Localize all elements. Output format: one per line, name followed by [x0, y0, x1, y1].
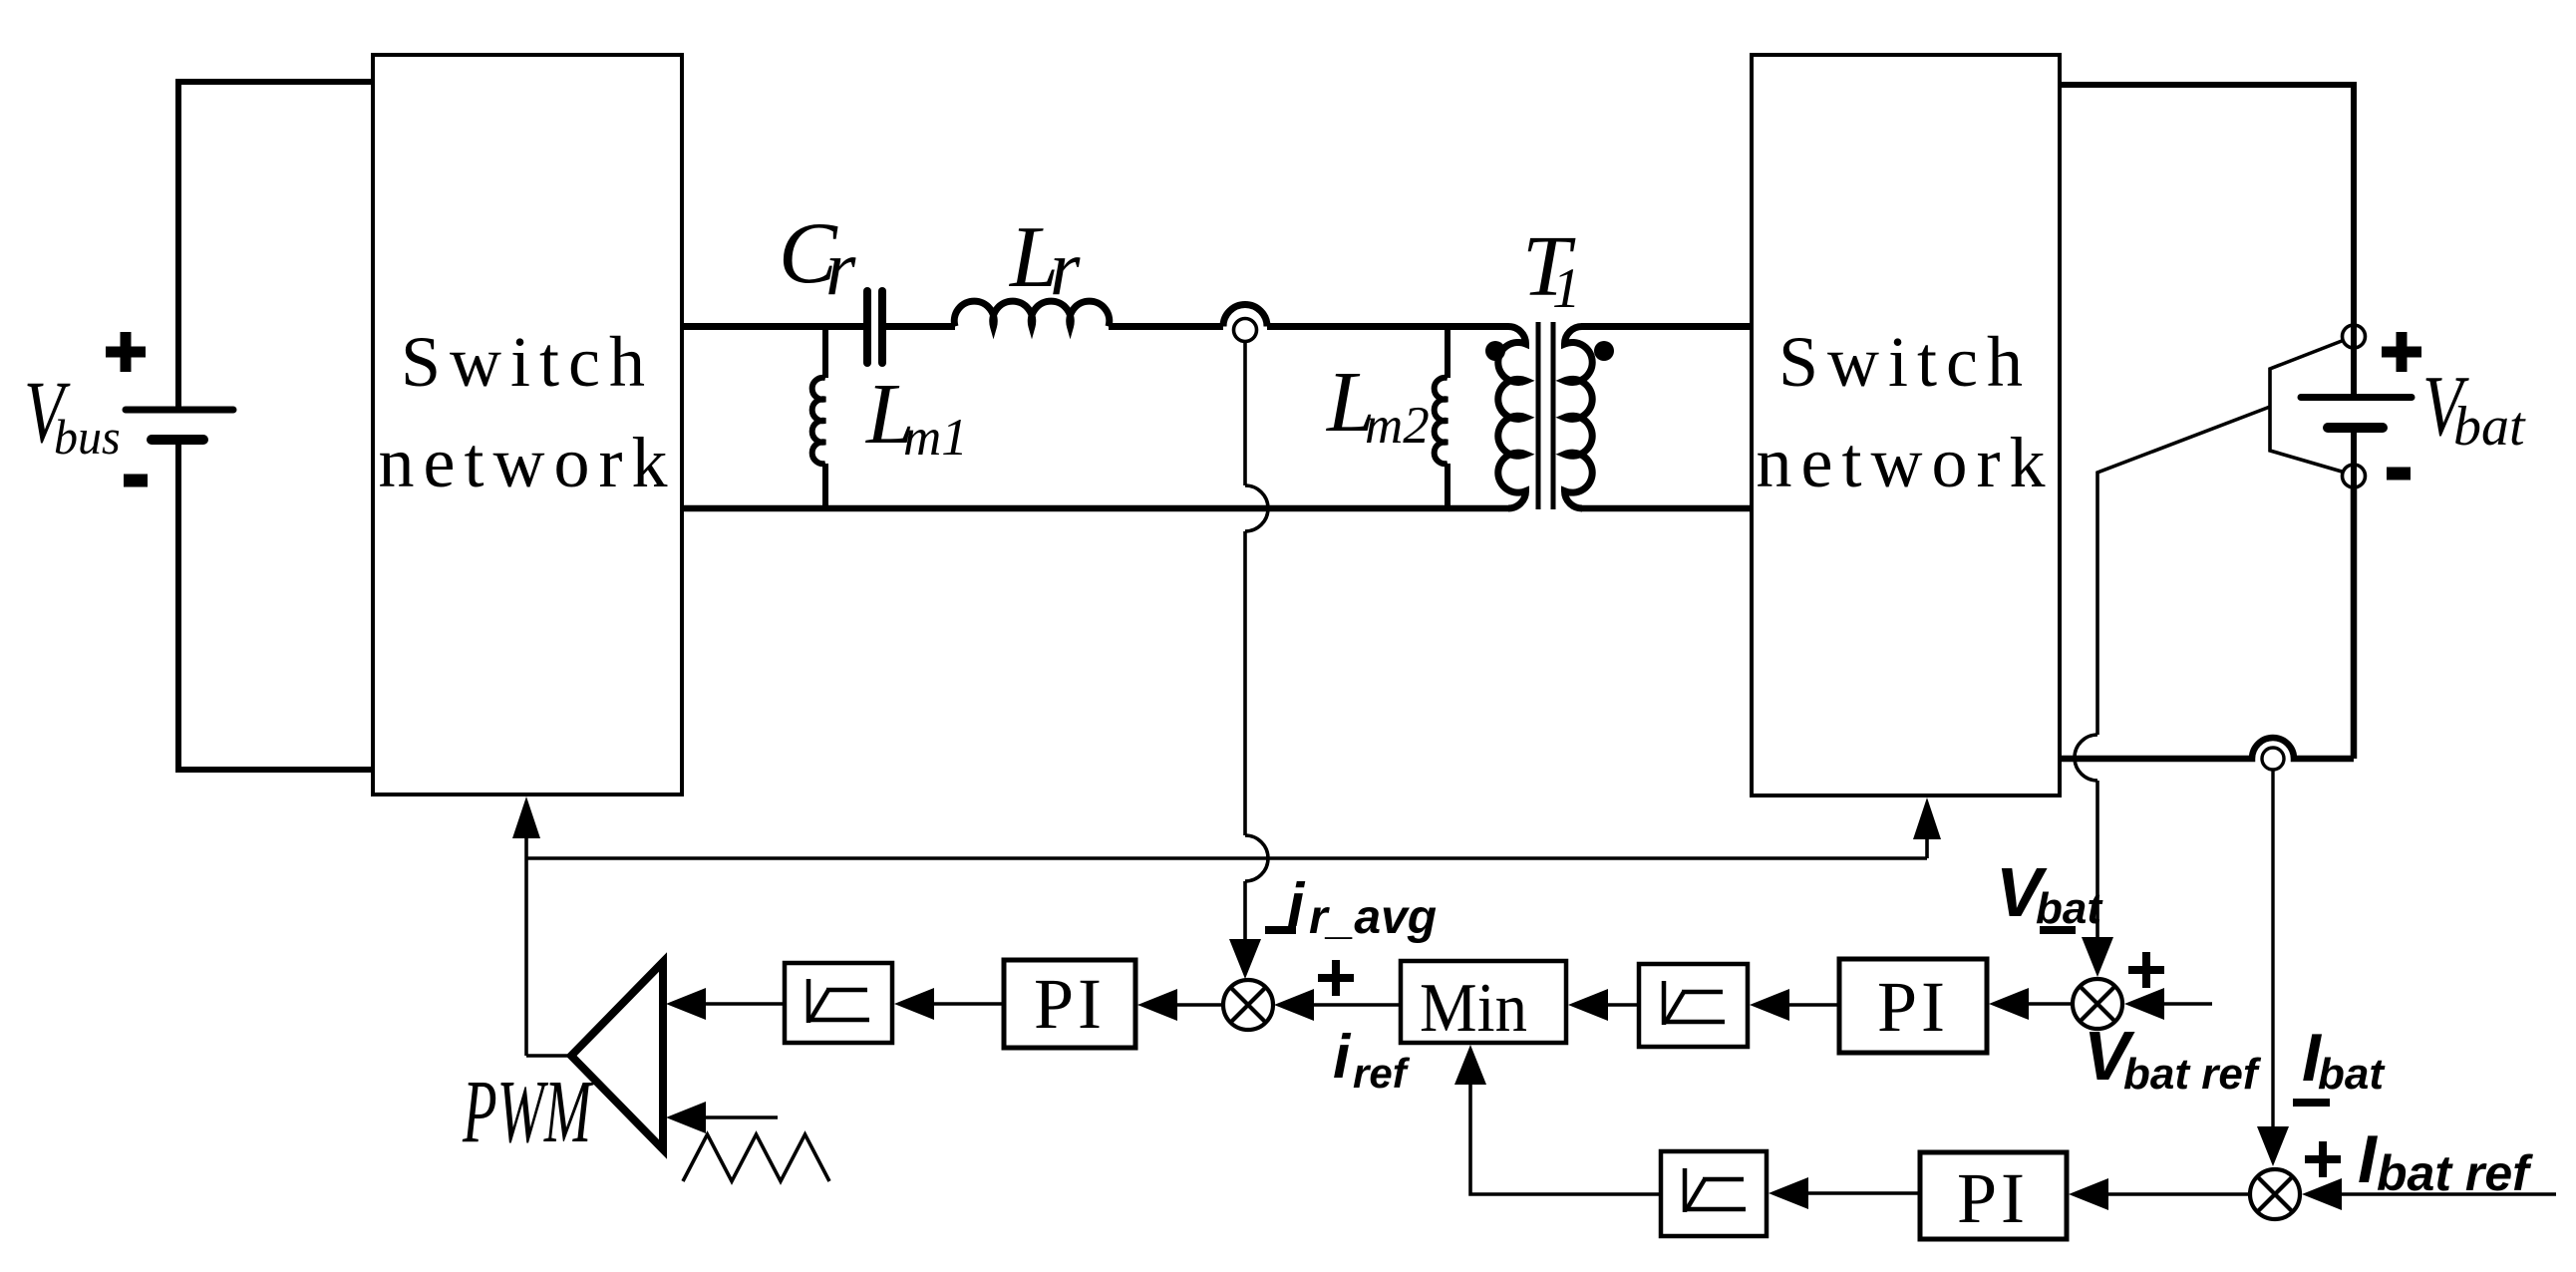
svg-text:network: network	[379, 423, 677, 502]
plus sign at junction 1	[1318, 960, 1354, 996]
transformer T1 core	[1536, 322, 1541, 509]
node: Vbat plus terminal circle	[2343, 325, 2366, 348]
arrow into summing junction 3	[2257, 1126, 2289, 1166]
svg-text:m2: m2	[1365, 397, 1430, 455]
svg-text:ref: ref	[1353, 1050, 1411, 1097]
saturation block 2	[1639, 964, 1748, 1047]
arrow into summing junction 1	[1229, 939, 1261, 979]
inductor Lm2	[1435, 327, 1448, 509]
arrow into Min from right	[1568, 989, 1608, 1021]
transformer T1 primary winding	[1498, 327, 1526, 509]
arrow into Min from below	[1454, 1045, 1486, 1085]
svg-text:m1: m1	[903, 409, 968, 467]
transformer T1 polarity dot primary	[1485, 341, 1505, 361]
svg-text:bat ref: bat ref	[2123, 1050, 2262, 1099]
summing junction 3	[2250, 1169, 2300, 1219]
svg-text:PI: PI	[1877, 967, 1949, 1047]
PI block 2	[1839, 959, 1987, 1053]
svg-text:bat ref: bat ref	[2377, 1145, 2533, 1201]
node: Ibat tap circle	[2262, 748, 2284, 770]
sawtooth carrier input arrow	[666, 1102, 706, 1133]
inductor Lr	[954, 301, 1109, 326]
PI block 1	[1004, 960, 1135, 1048]
svg-text:i: i	[1287, 871, 1306, 940]
node: Vbat minus terminal circle	[2343, 465, 2366, 487]
saturation block 3	[1661, 1151, 1767, 1236]
svg-text:PWM: PWM	[462, 1063, 594, 1161]
wire: i_r_avg sense line	[1245, 342, 1268, 943]
saturation block 1	[785, 963, 892, 1043]
wire: right top to battery	[2060, 85, 2354, 394]
summing junction 2	[2073, 979, 2122, 1029]
arrow into junction 1 from Min	[1274, 989, 1314, 1021]
arrow into right switch network	[1913, 797, 1941, 839]
svg-text:i: i	[1333, 1023, 1352, 1092]
minus sign Vbus	[124, 475, 148, 487]
svg-text:bat: bat	[2453, 396, 2526, 458]
battery Vbus	[126, 82, 374, 770]
arrow into PWM upper input	[666, 988, 706, 1020]
svg-text:PI: PI	[1957, 1158, 2029, 1238]
minus sign at junction 3	[2293, 1099, 2330, 1107]
arrow into PI 1	[1137, 989, 1177, 1021]
PI block 3	[1920, 1152, 2067, 1239]
plus sign at junction 2	[2128, 952, 2164, 988]
svg-text:r: r	[1050, 224, 1081, 311]
summing junction 1	[1223, 980, 1273, 1030]
minus sign at junction 1	[1265, 926, 1296, 934]
battery Vbat	[2301, 398, 2412, 491]
svg-text:Min: Min	[1420, 970, 1527, 1047]
svg-text:PI: PI	[1034, 964, 1106, 1044]
svg-text:bus: bus	[54, 409, 121, 465]
wire: Ibat sense line	[2271, 770, 2274, 1126]
svg-text:Switch: Switch	[401, 322, 654, 402]
svg-text:Switch: Switch	[1778, 322, 2032, 402]
transformer T1 polarity dot secondary	[1594, 341, 1614, 361]
plus sign Vbat	[2382, 332, 2421, 372]
wire: Vbat sense bracket	[2075, 341, 2342, 938]
svg-text:r: r	[825, 224, 856, 311]
svg-text:network: network	[1757, 423, 2055, 502]
svg-text:1: 1	[1552, 257, 1581, 320]
inductor Lm1	[812, 327, 825, 509]
arrow into junction 2 from right	[2124, 988, 2164, 1020]
block Min	[1401, 961, 1566, 1043]
wire: battery down and bottom return	[2060, 487, 2354, 759]
block: right switch network	[1752, 55, 2060, 795]
transformer T1 secondary winding	[1565, 327, 1593, 509]
arrow into PI 2	[1989, 988, 2029, 1020]
wire: saturation 3 to Min	[1470, 1085, 1661, 1194]
arrow into saturation 1	[894, 988, 934, 1020]
node: tank mid tap circle	[1234, 319, 1257, 342]
wire: tank bottom	[682, 505, 1752, 512]
svg-text:I: I	[2358, 1121, 2379, 1197]
wire: PWM gate feedback	[526, 837, 1927, 1056]
comparator PWM	[571, 962, 663, 1149]
block: left switch network	[373, 55, 682, 795]
plus sign Vbus	[106, 332, 146, 372]
capacitor Cr	[867, 291, 882, 363]
arrow into junction 3 from right	[2302, 1178, 2342, 1210]
wire: junction 3 to PI 3	[2069, 1178, 2108, 1210]
svg-text:r_avg: r_avg	[1309, 891, 1437, 944]
arrow into saturation 2	[1750, 989, 1789, 1021]
wire: tank top	[682, 305, 1752, 327]
minus sign Vbat	[2387, 468, 2411, 480]
svg-text:bat: bat	[2318, 1050, 2386, 1099]
svg-text:bat: bat	[2036, 884, 2103, 933]
arrow into left switch network	[512, 796, 540, 838]
sawtooth carrier waveform	[683, 1134, 829, 1181]
minus sign at junction 2	[2040, 926, 2076, 934]
wire: PI 3 to saturation 3	[1769, 1177, 1808, 1209]
plus sign at junction 3	[2305, 1141, 2341, 1177]
arrow into summing junction 2	[2082, 937, 2113, 977]
